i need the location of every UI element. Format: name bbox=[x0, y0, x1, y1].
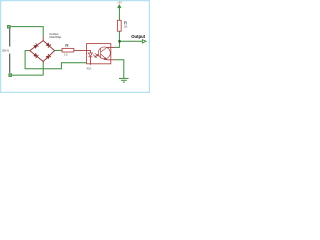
svg-text:Output: Output bbox=[131, 34, 145, 39]
resistor R1 body bbox=[117, 20, 121, 31]
U1 LED bbox=[88, 53, 92, 57]
junction output node bbox=[118, 40, 121, 43]
U1 pin 3 emitter lead bbox=[107, 59, 115, 61]
coupling arrows bbox=[93, 53, 98, 57]
diode D1 (upper-left) bbox=[34, 43, 39, 48]
U1 pin 1 anode lead bbox=[81, 50, 90, 53]
wire R2 to opto anode pin bbox=[74, 49, 81, 51]
pad top terminal bbox=[7, 25, 10, 28]
diode D2 (upper-right) bbox=[46, 43, 51, 48]
diode D3 (lower-left) bbox=[33, 53, 38, 58]
label Full Wave Diode Bridge bbox=[49, 32, 61, 39]
ground bbox=[119, 78, 129, 82]
border frame bbox=[1, 1, 150, 93]
U1 pin 4 collector lead bbox=[107, 46, 115, 48]
svg-text:230V AC: 230V AC bbox=[2, 48, 9, 52]
AC source V1 230V bbox=[9, 29, 11, 73]
label 4N25 bbox=[87, 67, 92, 71]
wire emitter to ground bbox=[115, 60, 124, 78]
diode bridge B1 frame bbox=[28, 37, 55, 64]
canvas background bbox=[0, 0, 150, 93]
wire output bbox=[119, 40, 142, 42]
value 10k bbox=[124, 25, 128, 29]
optocoupler U1 box bbox=[87, 44, 111, 64]
label R (R2) bbox=[65, 43, 69, 49]
wire R1 top to +5V bbox=[118, 8, 120, 20]
label R (R1) bbox=[124, 21, 128, 27]
label 230V AC bbox=[2, 48, 9, 52]
pad bottom terminal bbox=[9, 74, 12, 77]
wire collector to output junction bbox=[115, 41, 119, 47]
label +5V bbox=[117, 1, 122, 5]
wire DC- : bridge left vertex to opto LED cathode bbox=[25, 51, 90, 69]
wire DC+ : bridge right vertex to resistor R2 bbox=[55, 49, 62, 51]
U1 phototransistor bbox=[98, 47, 110, 60]
output arrow head bbox=[142, 40, 146, 43]
wire R1 bottom to output junction bbox=[118, 31, 120, 41]
power flag +5V bbox=[117, 4, 121, 8]
wire AC top: source to bridge top vertex bbox=[11, 27, 44, 37]
label Output bbox=[131, 34, 145, 39]
U1 pin 2 cathode lead bbox=[89, 57, 91, 65]
diode D4 (lower-right) bbox=[46, 54, 51, 59]
svg-text:R: R bbox=[65, 43, 69, 49]
value 2.2k bbox=[64, 53, 68, 57]
resistor R2 body bbox=[62, 48, 74, 52]
wire AC bottom: source to bridge bottom vertex (crosses DC- wire) bbox=[12, 63, 43, 75]
